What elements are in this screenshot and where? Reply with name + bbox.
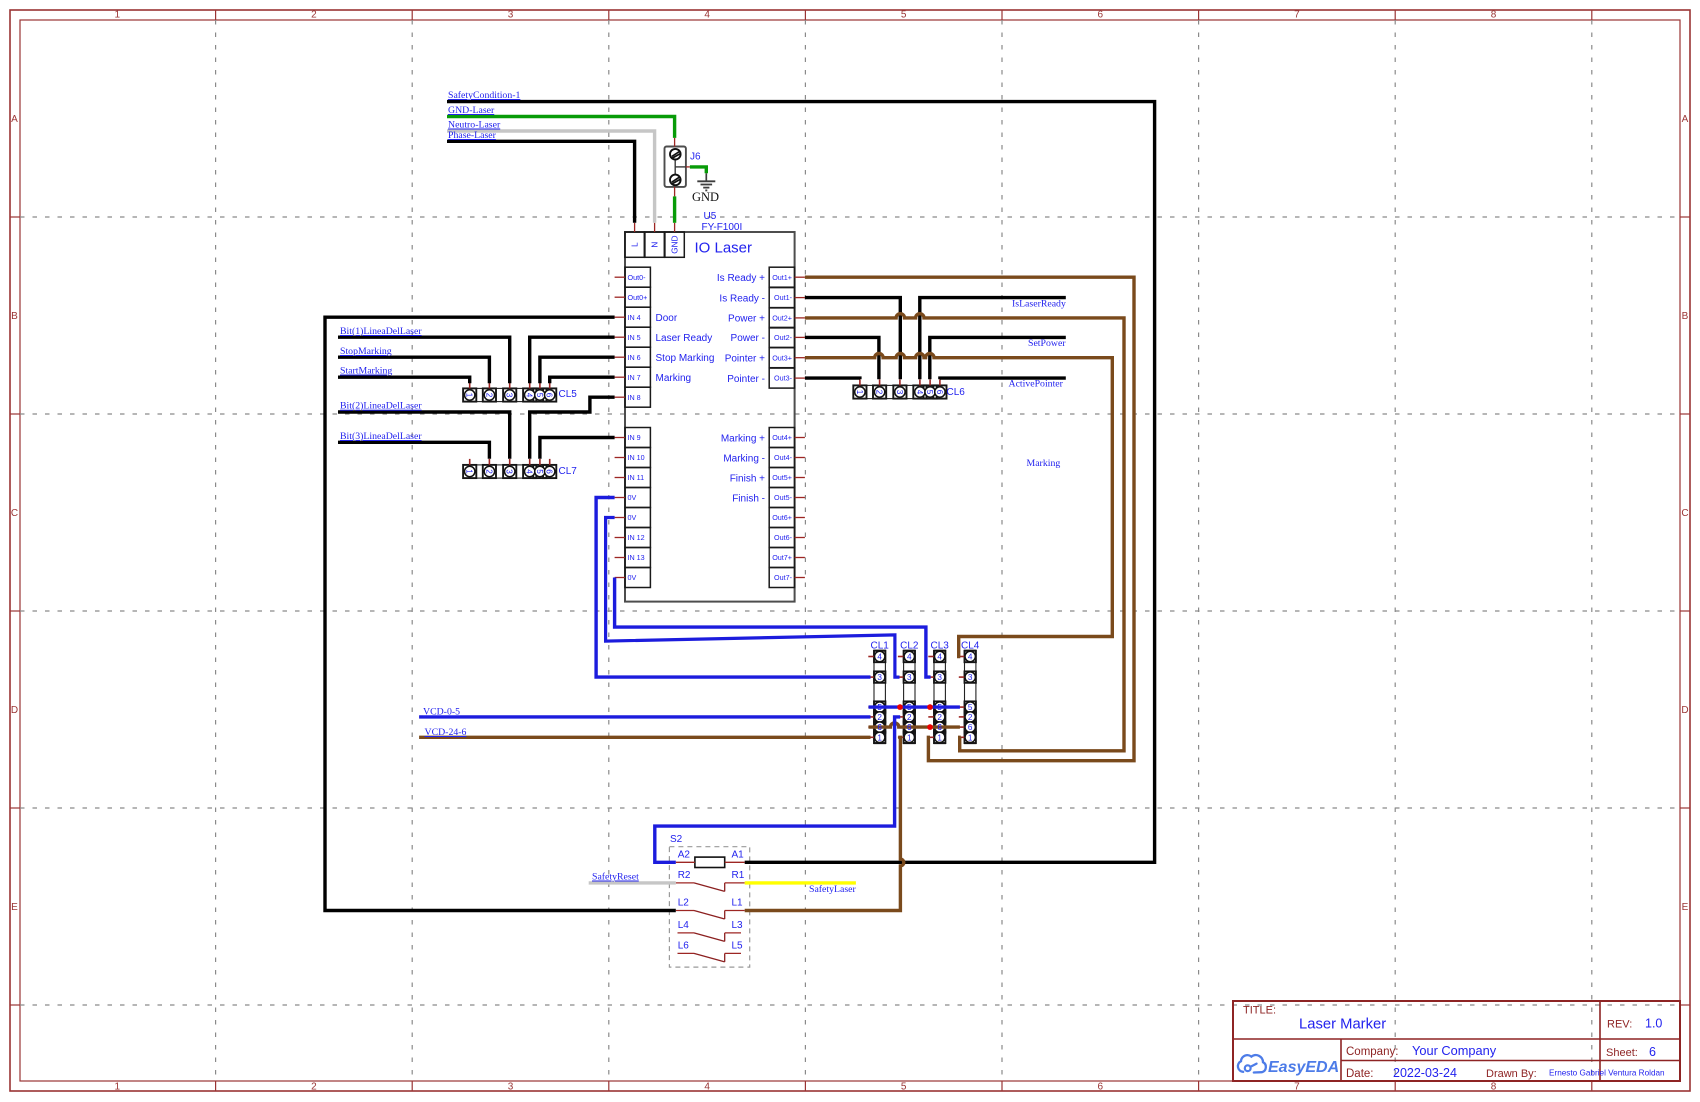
svg-text:1: 1 — [465, 393, 474, 398]
svg-text:8: 8 — [1491, 1082, 1497, 1093]
svg-text:SafetyCondition-1: SafetyCondition-1 — [448, 90, 520, 101]
pin 0V of U5 (left) — [625, 488, 650, 508]
svg-text:3: 3 — [907, 673, 912, 682]
relay S2 dashed outline — [669, 847, 749, 967]
svg-text:GND: GND — [692, 190, 719, 204]
svg-text:Out3-: Out3- — [774, 374, 793, 383]
pin 4 of CL5 — [529, 382, 531, 388]
pin 0V of U5 (left) — [625, 568, 650, 588]
pin Out1+ of U5 (right) — [769, 267, 794, 287]
svg-text:IN 8: IN 8 — [628, 393, 641, 402]
wire IN4 / L2 net: long left vertical from IN 4 down to S2 L2 — [325, 317, 676, 910]
wire CL5 pin 4 to U5 IN 5 — [530, 337, 615, 383]
svg-text:0V: 0V — [628, 513, 637, 522]
wire CL7 pin 4 jog to U5 IN 8 — [530, 397, 615, 459]
svg-text:2: 2 — [907, 713, 912, 722]
svg-text:2022-03-24: 2022-03-24 — [1393, 1066, 1457, 1080]
svg-text:4: 4 — [877, 653, 882, 662]
svg-text:L6: L6 — [678, 940, 690, 951]
title block — [1233, 1001, 1680, 1081]
pin 4 of CL2 — [898, 656, 904, 658]
pin 5 of CL6 — [929, 379, 931, 385]
svg-text:IO Laser: IO Laser — [695, 240, 753, 257]
svg-text:CL5: CL5 — [559, 389, 578, 400]
svg-text:VCD-0-5: VCD-0-5 — [423, 707, 460, 718]
wire SafetyReset grey to S2 R2 — [589, 881, 676, 884]
pin 5 of CL1 — [868, 706, 874, 708]
wire CL7 pin 5 to U5 IN 9 — [540, 438, 615, 459]
pin Out4+ of U5 (right) — [769, 428, 794, 448]
pin 6 of CL2 — [898, 726, 904, 728]
wire U5 Out1- to CL6 pin 3 — [805, 298, 900, 380]
wire blue CL2 pin 2 down to S2 A2 — [655, 717, 900, 862]
svg-text:6: 6 — [907, 723, 912, 732]
svg-text:0V: 0V — [628, 493, 637, 502]
svg-text:Out3+: Out3+ — [772, 353, 792, 362]
wire GND-Laser green from label to J6 pin 1 — [447, 117, 675, 138]
svg-text:Out6-: Out6- — [774, 533, 793, 542]
pin IN 11 of U5 (left) — [625, 468, 650, 488]
svg-text:SafetyReset: SafetyReset — [592, 872, 639, 883]
svg-text:Marking +: Marking + — [721, 433, 765, 444]
connector CL6 6-pin terminal — [853, 379, 946, 398]
svg-text:Out1-: Out1- — [774, 293, 793, 302]
svg-text:A: A — [1682, 114, 1689, 125]
wire U5 Out2- to CL6 pin 2 — [805, 337, 879, 379]
svg-text:Drawn By:: Drawn By: — [1486, 1068, 1537, 1080]
svg-text:N: N — [651, 242, 660, 248]
pin GND of U5 (top) — [665, 232, 684, 257]
wire Bit(1)LineaDelLaser to CL5 pin 3 — [338, 337, 510, 383]
svg-text:4: 4 — [937, 653, 942, 662]
svg-text:L5: L5 — [732, 940, 744, 951]
pin Out7- of U5 (right) — [769, 568, 794, 588]
wire SafetyLaser yellow from S2 R1 — [745, 881, 856, 884]
svg-text:5: 5 — [877, 703, 882, 712]
wire Neutro-Laser grey from label to U5 pin N — [447, 131, 655, 223]
svg-text:1: 1 — [877, 733, 882, 742]
svg-text:Ernesto Gabriel Ventura Roldan: Ernesto Gabriel Ventura Roldan — [1549, 1069, 1665, 1078]
svg-text:2: 2 — [875, 390, 884, 395]
connector CL5 6-pin terminal — [463, 382, 556, 401]
svg-text:1.0: 1.0 — [1645, 1017, 1662, 1031]
svg-text:5: 5 — [535, 469, 544, 474]
pin 4 of CL7 — [529, 459, 531, 465]
pin 4 of CL6 — [919, 379, 921, 385]
pin Out4- of U5 (right) — [769, 448, 794, 468]
svg-text:3: 3 — [505, 393, 514, 398]
svg-text:Pointer +: Pointer + — [725, 354, 765, 365]
pin 4 of CL1 — [868, 656, 874, 658]
svg-text:SetPower: SetPower — [1028, 338, 1066, 349]
svg-text:5: 5 — [901, 10, 907, 21]
svg-text:E: E — [1682, 902, 1689, 913]
pin 5 of CL3 — [928, 706, 934, 708]
pin IN 13 of U5 (left) — [625, 548, 650, 568]
wire blue 0V (pin row 517.5) to CL2 pin 3 — [606, 518, 900, 678]
svg-text:Company:: Company: — [1346, 1046, 1398, 1058]
svg-text:6: 6 — [545, 469, 554, 474]
svg-text:E: E — [11, 902, 18, 913]
svg-text:Neutro-Laser: Neutro-Laser — [448, 120, 501, 131]
svg-text:4: 4 — [704, 10, 710, 21]
pin 4 of CL3 — [928, 656, 934, 658]
svg-text:6: 6 — [935, 390, 944, 395]
pin 6 of CL7 — [549, 459, 551, 465]
svg-text:Power +: Power + — [728, 314, 765, 325]
svg-text:L: L — [631, 242, 640, 247]
svg-text:Bit(2)LineaDelLaser: Bit(2)LineaDelLaser — [340, 401, 422, 412]
svg-text:1: 1 — [937, 733, 942, 742]
svg-text:1: 1 — [115, 10, 121, 21]
svg-text:Out2-: Out2- — [774, 333, 793, 342]
connector CL3 6-pin terminal vertical — [928, 650, 945, 743]
pin 6 of CL5 — [549, 382, 551, 388]
wire StartMarking to CL5 pin 1 — [338, 377, 470, 383]
pin 1 of CL3 — [928, 736, 934, 738]
coil of relay S2 (A2-A1) — [695, 857, 725, 867]
svg-text:Out4-: Out4- — [774, 453, 793, 462]
connector J6 two-screw terminal — [665, 147, 686, 187]
wire blue 0V (pin row 577.5) to CL3 pin 3 — [615, 578, 931, 678]
svg-text:REV:: REV: — [1607, 1019, 1632, 1031]
pin Out6+ of U5 (right) — [769, 508, 794, 528]
wire Phase-Laser black from label to U5 pin L — [447, 141, 635, 223]
svg-text:EasyEDA: EasyEDA — [1268, 1059, 1339, 1076]
pin 5 of CL4 — [959, 706, 965, 708]
pin 3 of CL2 — [898, 676, 904, 678]
svg-text:C: C — [11, 508, 18, 519]
pin IN 8 of U5 (left) — [625, 387, 650, 407]
svg-text:IN 12: IN 12 — [628, 533, 645, 542]
op-amp U5 FY-F100I IO Laser main body — [625, 232, 795, 602]
svg-text:2: 2 — [484, 469, 493, 474]
wire StopMarking to CL5 pin 2 — [338, 357, 489, 383]
pin 5 of CL5 — [539, 382, 541, 388]
svg-text:4: 4 — [907, 653, 912, 662]
pin Out0- of U5 (left) — [625, 267, 650, 287]
pin IN 6 of U5 (left) — [625, 347, 650, 367]
pin 3 of CL7 — [509, 459, 511, 465]
svg-text:Date:: Date: — [1346, 1068, 1374, 1080]
svg-text:B: B — [1682, 311, 1689, 322]
junction dot CL2 pin5 blue bus — [897, 704, 903, 710]
svg-text:A2: A2 — [678, 849, 691, 860]
svg-text:CL1: CL1 — [871, 641, 890, 652]
connector CL1 6-pin terminal vertical — [868, 650, 885, 743]
connector CL2 6-pin terminal vertical — [898, 650, 915, 743]
svg-text:Finish +: Finish + — [730, 473, 765, 484]
svg-text:5: 5 — [968, 703, 973, 712]
pin Out2+ of U5 (right) — [769, 308, 794, 328]
svg-text:R1: R1 — [732, 870, 745, 881]
svg-text:2: 2 — [311, 1082, 317, 1093]
svg-text:Out0+: Out0+ — [628, 293, 648, 302]
svg-text:6: 6 — [1098, 1082, 1104, 1093]
pin IN 4 of U5 (left) — [625, 307, 650, 327]
svg-text:C: C — [1681, 508, 1688, 519]
EasyEDA logo — [1238, 1055, 1339, 1076]
pin 6 of CL4 — [959, 726, 965, 728]
svg-text:StopMarking: StopMarking — [340, 346, 392, 357]
pin IN 7 of U5 (left) — [625, 367, 650, 387]
wire CL6 pin 5 to SetPower — [930, 337, 1066, 379]
pin Out3+ of U5 (right) — [769, 348, 794, 368]
svg-text:5: 5 — [907, 703, 912, 712]
svg-text:S2: S2 — [670, 834, 683, 845]
pin 0V of U5 (left) — [625, 508, 650, 528]
svg-text:B: B — [11, 311, 18, 322]
junction dot CL3 pin5 blue bus — [927, 704, 933, 710]
pin IN 9 of U5 (left) — [625, 428, 650, 448]
pin 2 of CL3 — [928, 716, 934, 718]
svg-text:4: 4 — [704, 1082, 710, 1093]
contact R2-R1 of relay S2 — [676, 882, 694, 884]
pin 5 of CL7 — [539, 459, 541, 465]
svg-text:VCD-24-6: VCD-24-6 — [425, 727, 467, 738]
svg-text:D: D — [11, 705, 18, 716]
pin IN 5 of U5 (left) — [625, 327, 650, 347]
svg-text:A: A — [11, 114, 18, 125]
pin 1 of CL5 — [469, 382, 471, 388]
svg-text:Marking: Marking — [1027, 458, 1061, 469]
svg-text:7: 7 — [1294, 10, 1300, 21]
svg-text:5: 5 — [925, 390, 934, 395]
svg-text:3: 3 — [508, 10, 514, 21]
svg-text:6: 6 — [877, 723, 882, 732]
pin 2 of CL1 — [868, 716, 874, 718]
svg-text:GND: GND — [671, 235, 680, 253]
svg-text:ActivePointer: ActivePointer — [1009, 379, 1064, 390]
pin N of U5 (top) — [645, 232, 664, 257]
svg-text:6: 6 — [1098, 10, 1104, 21]
svg-text:6: 6 — [545, 393, 554, 398]
svg-text:U5: U5 — [704, 211, 717, 222]
svg-text:2: 2 — [968, 713, 973, 722]
wire CL5 pin 6 to U5 IN 7 — [550, 377, 615, 383]
svg-text:Is Ready -: Is Ready - — [719, 293, 765, 304]
svg-text:Your Company: Your Company — [1412, 1043, 1497, 1058]
pin 6 of CL1 — [868, 726, 874, 728]
svg-text:L4: L4 — [678, 920, 690, 931]
svg-text:3: 3 — [968, 673, 973, 682]
svg-text:1: 1 — [968, 733, 973, 742]
pin 3 of CL3 — [928, 676, 934, 678]
connector CL4 6-pin terminal vertical — [959, 650, 976, 743]
wire green J6 middle pin to earth ground — [690, 167, 706, 173]
pin 2 of CL7 — [488, 459, 490, 465]
svg-text:Laser Ready: Laser Ready — [656, 333, 713, 344]
svg-text:Is Ready +: Is Ready + — [717, 273, 765, 284]
svg-text:CL6: CL6 — [947, 387, 966, 398]
svg-text:1: 1 — [907, 733, 912, 742]
svg-text:Power -: Power - — [731, 333, 765, 344]
svg-text:J6: J6 — [690, 152, 701, 163]
pin 1 of CL7 — [469, 459, 471, 465]
wire brown U5 Out3+ to CL4 pin 4 (hops over four verticals) — [805, 354, 1112, 657]
svg-text:FY-F100I: FY-F100I — [702, 222, 743, 233]
wire CL6 pin 4 to IsLaserReady — [920, 298, 1066, 380]
wire CL6 pin 6 to ActivePointer — [940, 378, 1066, 379]
svg-text:8: 8 — [1491, 10, 1497, 21]
pin 2 of CL2 — [898, 716, 904, 718]
pin 1 of CL6 — [859, 379, 861, 385]
svg-text:CL3: CL3 — [931, 641, 950, 652]
svg-text:2: 2 — [311, 10, 317, 21]
svg-text:StartMarking: StartMarking — [340, 366, 392, 377]
wire brown U5 Out2+ to CL4 pin 1 (hops over two verticals) — [805, 314, 1124, 751]
wire brown bus across CL1..CL4 pin 6 row (hop over blue vertical) — [869, 723, 960, 727]
svg-text:Out5+: Out5+ — [772, 473, 792, 482]
svg-text:CL2: CL2 — [900, 641, 919, 652]
svg-text:IN 10: IN 10 — [628, 453, 645, 462]
svg-text:IN 5: IN 5 — [628, 333, 641, 342]
pin 2 of CL4 — [959, 716, 965, 718]
svg-text:5: 5 — [901, 1082, 907, 1093]
svg-text:Bit(3)LineaDelLaser: Bit(3)LineaDelLaser — [340, 431, 422, 442]
svg-text:Bit(1)LineaDelLaser: Bit(1)LineaDelLaser — [340, 326, 422, 337]
pin 1 of CL2 — [898, 736, 904, 738]
svg-text:SafetyLaser: SafetyLaser — [809, 884, 857, 895]
svg-text:L2: L2 — [678, 898, 690, 909]
svg-text:IN 4: IN 4 — [628, 313, 641, 322]
svg-text:GND-Laser: GND-Laser — [448, 105, 495, 116]
svg-text:Out1+: Out1+ — [772, 273, 792, 282]
svg-text:Laser Marker: Laser Marker — [1299, 1017, 1386, 1033]
pin Out6- of U5 (right) — [769, 528, 794, 548]
svg-text:TITLE:: TITLE: — [1243, 1005, 1276, 1017]
svg-text:Pointer -: Pointer - — [727, 374, 765, 385]
pin Out5+ of U5 (right) — [769, 468, 794, 488]
svg-text:IN 13: IN 13 — [628, 553, 645, 562]
svg-text:Phase-Laser: Phase-Laser — [448, 130, 497, 141]
pin IN 10 of U5 (left) — [625, 448, 650, 468]
svg-text:D: D — [1681, 705, 1688, 716]
junction dot CL3 pin6 brown bus — [927, 724, 933, 730]
pin Out5- of U5 (right) — [769, 488, 794, 508]
wire Bit(2)LineaDelLaser to CL7 pin 3 — [338, 412, 510, 459]
svg-text:3: 3 — [505, 469, 514, 474]
svg-text:L3: L3 — [732, 920, 744, 931]
svg-text:2: 2 — [937, 713, 942, 722]
wire U5 Out3- to CL6 pin 1 — [805, 378, 860, 379]
pin 3 of CL1 — [868, 676, 874, 678]
wire blue bus across CL1..CL4 pin 5 row — [869, 705, 960, 708]
svg-text:3: 3 — [877, 673, 882, 682]
svg-text:Out5-: Out5- — [774, 493, 793, 502]
svg-text:0V: 0V — [628, 573, 637, 582]
svg-text:IN 6: IN 6 — [628, 353, 641, 362]
svg-text:Out7+: Out7+ — [772, 553, 792, 562]
svg-text:3: 3 — [508, 1082, 514, 1093]
pin 4 of CL4 — [959, 656, 965, 658]
wire VCD-24-6 brown to CL1 pin 1 — [419, 736, 870, 739]
wire brown U5 Out1+ to CL3 pin 1 — [805, 277, 1134, 761]
svg-text:Out2+: Out2+ — [772, 314, 792, 323]
pin 2 of CL5 — [488, 382, 490, 388]
svg-text:Out4+: Out4+ — [772, 433, 792, 442]
wire green J6 pin 2 to U5 GND pin — [673, 196, 676, 222]
svg-text:4: 4 — [915, 390, 924, 395]
svg-text:IN 7: IN 7 — [628, 373, 641, 382]
wire CL5 pin 5 to U5 IN 6 — [540, 357, 615, 383]
svg-text:Marking -: Marking - — [723, 453, 765, 464]
svg-text:Marking: Marking — [656, 373, 692, 384]
pin Out1- of U5 (right) — [769, 288, 794, 308]
svg-text:1: 1 — [465, 469, 474, 474]
connector CL7 6-pin terminal — [463, 459, 556, 478]
contact L4-L3 of relay S2 — [678, 932, 695, 934]
svg-text:IN 11: IN 11 — [628, 473, 645, 482]
svg-text:3: 3 — [937, 673, 942, 682]
svg-text:5: 5 — [535, 393, 544, 398]
contact L6-L5 of relay S2 — [678, 952, 695, 954]
svg-text:4: 4 — [968, 653, 973, 662]
pin Out3- of U5 (right) — [769, 368, 794, 388]
svg-text:IsLaserReady: IsLaserReady — [1012, 299, 1066, 310]
svg-text:6: 6 — [937, 723, 942, 732]
pin 6 of CL3 — [928, 726, 934, 728]
svg-text:Finish -: Finish - — [732, 493, 765, 504]
svg-text:Door: Door — [656, 313, 678, 324]
ground GND earth symbol — [705, 173, 707, 181]
pin 3 of CL6 — [899, 379, 901, 385]
svg-text:Out7-: Out7- — [774, 573, 793, 582]
wire Bit(3)LineaDelLaser to CL7 pin 2 — [338, 442, 489, 459]
pin 6 of CL6 — [939, 379, 941, 385]
svg-text:6: 6 — [968, 723, 973, 732]
svg-text:4: 4 — [525, 393, 534, 398]
svg-text:2: 2 — [484, 393, 493, 398]
svg-text:Stop Marking: Stop Marking — [656, 353, 715, 364]
svg-text:3: 3 — [895, 390, 904, 395]
svg-text:IN 9: IN 9 — [628, 433, 641, 442]
pin L of U5 (top) — [625, 232, 644, 257]
pin 1 of CL4 — [959, 736, 965, 738]
pin 2 of CL6 — [879, 379, 881, 385]
svg-text:Sheet:: Sheet: — [1606, 1047, 1638, 1059]
svg-text:R2: R2 — [678, 870, 691, 881]
svg-text:4: 4 — [525, 469, 534, 474]
wire SafetyCondition-1 net: top horizontal, right vertical, bottom to S2 A1 — [447, 102, 1155, 863]
pin 3 of CL5 — [509, 382, 511, 388]
pin 1 of CL1 — [868, 736, 874, 738]
svg-text:5: 5 — [937, 703, 942, 712]
pin 3 of CL4 — [959, 676, 965, 678]
svg-text:2: 2 — [877, 713, 882, 722]
svg-text:1: 1 — [115, 1082, 121, 1093]
contact L2-L1 of relay S2 — [676, 910, 694, 912]
svg-text:7: 7 — [1294, 1082, 1300, 1093]
svg-text:6: 6 — [1649, 1045, 1656, 1059]
wire blue 0V (pin row 497.5) to CL1 pin 3 — [596, 498, 870, 678]
svg-text:1: 1 — [855, 390, 864, 395]
pin Out7+ of U5 (right) — [769, 548, 794, 568]
pin Out2- of U5 (right) — [769, 327, 794, 347]
svg-text:Out6+: Out6+ — [772, 513, 792, 522]
svg-text:CL7: CL7 — [559, 466, 578, 477]
pin Out0+ of U5 (left) — [625, 287, 650, 307]
pin 5 of CL2 — [898, 706, 904, 708]
svg-text:Out0-: Out0- — [628, 273, 647, 282]
svg-text:CL4: CL4 — [961, 641, 980, 652]
svg-text:L1: L1 — [732, 898, 744, 909]
pin IN 12 of U5 (left) — [625, 528, 650, 548]
wire brown CL2 pin 1 down to S2 L1 (hop over black) — [745, 737, 904, 910]
wire VCD-0-5 blue to CL1 pin 2 — [419, 715, 870, 718]
svg-text:A1: A1 — [732, 849, 745, 860]
